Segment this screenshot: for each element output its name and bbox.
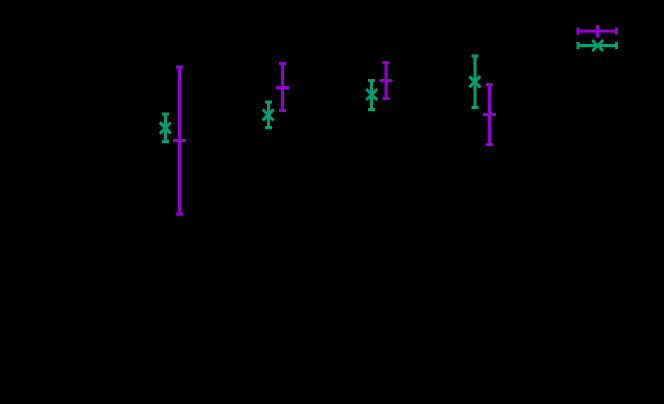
series 2 (teal) error bar point 3 <box>366 81 377 110</box>
series 1 (purple) error bar point 4 <box>483 84 496 144</box>
series 2 (teal) error bar point 1 <box>160 114 171 142</box>
series 2 (teal) error bar point 2 <box>263 102 274 127</box>
series 2 (teal) error bar point 4 <box>469 56 480 108</box>
series 1 (purple) error bar point 2 <box>276 63 289 110</box>
legend sample series 1 (purple) <box>578 25 617 37</box>
series 1 (purple) error bar point 1 <box>173 67 186 214</box>
series 1 (purple) error bar point 3 <box>380 62 393 98</box>
legend sample series 2 (teal) <box>578 40 617 51</box>
